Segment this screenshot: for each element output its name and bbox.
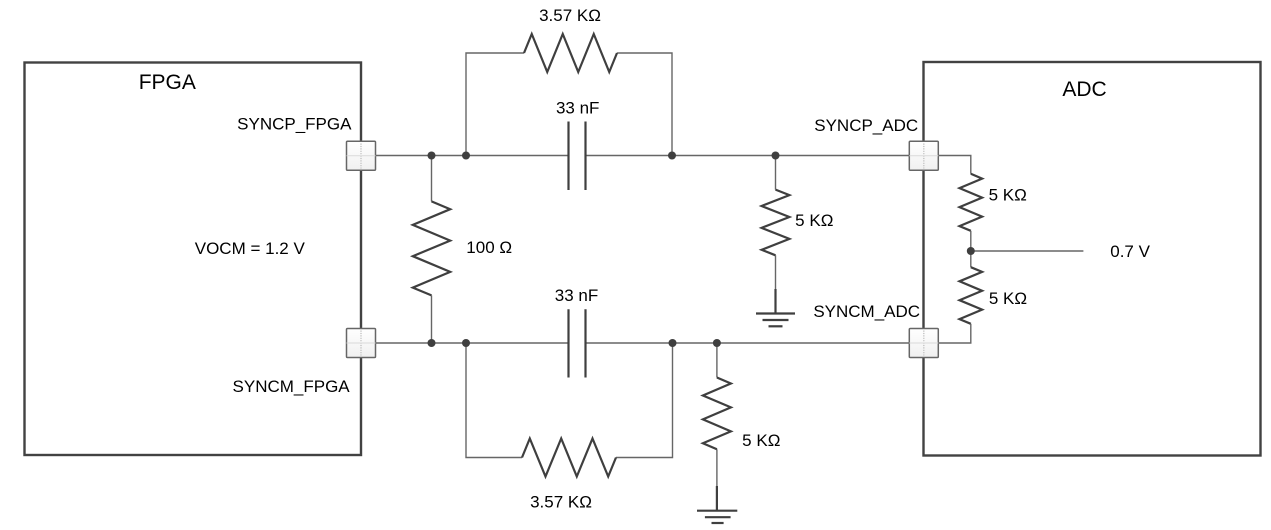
wire: top SYNCP net, C1 right plate to pin SYNCP_ADC: [586, 155, 910, 157]
wire: R5 5 KOhm bottom lead to ground: [716, 449, 718, 488]
wire: bottom feedback loop right side R2 to bottom net: [616, 343, 673, 458]
capacitor C1 33 nF (top) plates: [569, 122, 586, 191]
node junction bottom net / loop right: [669, 339, 677, 347]
svg-text:5 KΩ: 5 KΩ: [989, 185, 1027, 204]
wire: node 0.7 V tap: [971, 250, 1084, 252]
wire: R3 100 Ohm bottom lead to SYNCM net: [431, 295, 433, 343]
node junction top net / loop right: [668, 152, 676, 160]
wire: bottom feedback loop left riser and stub to R2: [466, 343, 522, 458]
pin SYNCM_ADC: [909, 329, 938, 358]
wire: top feedback loop left riser and stub to R1: [466, 53, 524, 156]
ADC U2 box: [924, 62, 1261, 456]
ground GND2: [697, 486, 737, 523]
node junction top net / R4: [772, 152, 780, 160]
svg-text:3.57 KΩ: 3.57 KΩ: [530, 493, 592, 512]
ground GND1: [756, 289, 795, 326]
svg-text:33 nF: 33 nF: [555, 286, 598, 305]
node junction bottom net / R5: [713, 339, 721, 347]
pin SYNCP_ADC: [909, 141, 938, 170]
wire: R4 5 KOhm top lead from SYNCP net: [775, 156, 777, 190]
svg-text:5 KΩ: 5 KΩ: [742, 431, 780, 450]
resistor R1 3.57 KOhm (top): [524, 34, 617, 72]
FPGA U1 box: [25, 63, 362, 456]
wire: bottom SYNCM net, pin SYNCM_FPGA to C2 left plate: [375, 342, 569, 344]
wire: R7 bottom lead to pin SYNCM_ADC: [939, 324, 971, 343]
svg-text:33 nF: 33 nF: [556, 99, 599, 118]
node junction top net / loop left: [462, 152, 470, 160]
wire: R4 5 KOhm bottom lead to ground: [775, 255, 777, 292]
resistor R6 5 KOhm (ADC top): [960, 174, 983, 231]
svg-text:SYNCM_FPGA: SYNCM_FPGA: [233, 377, 351, 396]
wire: top feedback loop right side R1 to top net: [617, 53, 672, 156]
resistor R5 5 KOhm (to ground, bottom): [703, 378, 731, 450]
svg-text:SYNCP_FPGA: SYNCP_FPGA: [237, 115, 352, 134]
junction dots: [428, 152, 975, 348]
svg-text:0.7 V: 0.7 V: [1110, 242, 1150, 261]
wire: top SYNCP net, pin SYNCP_FPGA to C1 left plate: [375, 155, 569, 157]
svg-text:3.57 KΩ: 3.57 KΩ: [539, 6, 601, 25]
resistor R7 5 KOhm (ADC bottom): [960, 267, 983, 324]
wire: R3 100 Ohm top lead from SYNCP net: [431, 156, 433, 202]
pin SYNCP_FPGA: [347, 141, 376, 170]
resistor R2 3.57 KOhm (bottom): [522, 439, 616, 477]
node junction bottom net / R3: [428, 339, 436, 347]
svg-text:FPGA: FPGA: [139, 71, 196, 94]
capacitor C2 33 nF (bottom) plates: [569, 309, 586, 377]
svg-text:SYNCM_ADC: SYNCM_ADC: [813, 302, 920, 321]
node junction top net / R3: [428, 152, 436, 160]
svg-text:100 Ω: 100 Ω: [466, 238, 512, 257]
wire: divider middle R6 to R7: [970, 231, 972, 267]
wire: ADC divider from pin SYNCP_ADC to R6: [939, 156, 971, 174]
pin SYNCM_FPGA: [347, 329, 376, 358]
node junction divider mid 0.7 V: [967, 247, 975, 255]
wire: bottom SYNCM net, C2 right plate to pin SYNCM_ADC: [586, 342, 910, 344]
svg-text:VOCM = 1.2 V: VOCM = 1.2 V: [195, 239, 306, 258]
resistor R4 5 KOhm (to ground, top): [762, 190, 790, 256]
node junction bottom net / loop left: [462, 339, 470, 347]
svg-text:ADC: ADC: [1062, 78, 1106, 101]
wire: R5 5 KOhm top lead from SYNCM net: [716, 343, 718, 378]
svg-text:5 KΩ: 5 KΩ: [989, 289, 1027, 308]
svg-text:5 KΩ: 5 KΩ: [795, 211, 833, 230]
svg-text:SYNCP_ADC: SYNCP_ADC: [814, 116, 918, 135]
resistor R3 100 Ohm (vertical): [413, 201, 450, 295]
